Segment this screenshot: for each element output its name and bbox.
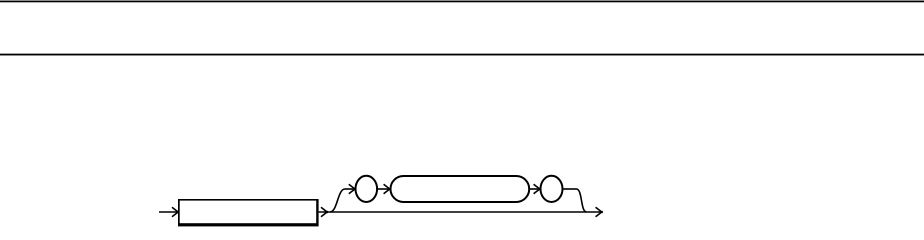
- wire upper before circle 1: [345, 188, 355, 190]
- horizontal rule second: [0, 54, 924, 56]
- wire branch up: [330, 189, 345, 212]
- arrow before capsule: [384, 184, 391, 193]
- wire main line: [319, 211, 601, 213]
- wire capsule to circle 2: [530, 188, 540, 190]
- circle C2: [541, 176, 563, 202]
- horizontal rule top: [0, 1, 924, 3]
- wire entry: [159, 211, 178, 213]
- capsule P1: [391, 176, 530, 202]
- wire branch down: [577, 189, 587, 212]
- circle C1: [356, 176, 378, 202]
- arrow after box: [321, 207, 328, 216]
- arrow before circle 1: [349, 184, 356, 193]
- wire after circle 2: [563, 188, 577, 190]
- arrow into box: [172, 207, 179, 216]
- arrow before circle 2: [534, 184, 541, 193]
- wire circle1 to capsule: [377, 188, 389, 190]
- terminal box B1: [178, 199, 319, 226]
- arrow end: [596, 207, 603, 216]
